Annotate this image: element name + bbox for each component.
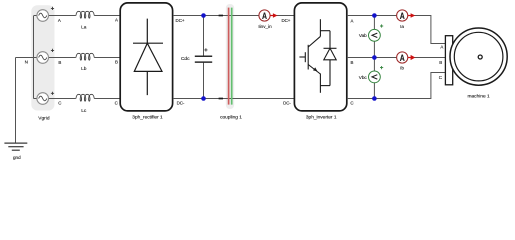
wire N bus vertical: [33, 16, 35, 99]
wire source B stub right: [48, 57, 76, 59]
svg-text:machine 1: machine 1: [468, 94, 490, 100]
wire inverter A out: [347, 15, 397, 17]
svg-text:B: B: [115, 60, 118, 65]
svg-text:A: A: [440, 45, 443, 50]
wire DC- rail: [173, 98, 295, 100]
junction dot wire A x374: [372, 13, 377, 18]
voltmeter Vbc: [369, 66, 384, 83]
rectifier U1 box: [120, 3, 172, 111]
svg-text:Iinv_in: Iinv_in: [258, 24, 272, 29]
voltmeter Vab: [369, 24, 384, 41]
inductor Lb: [76, 53, 94, 60]
inverter antiparallel diode: [324, 31, 337, 86]
svg-text:B: B: [439, 60, 442, 65]
svg-text:Ia: Ia: [400, 24, 404, 29]
svg-text:Vbc: Vbc: [359, 75, 368, 80]
junction dot DC- at Cdc: [201, 96, 206, 101]
svg-text:Vab: Vab: [359, 33, 367, 38]
rectifier diode symbol: [133, 19, 163, 96]
svg-text:C: C: [350, 101, 353, 106]
svg-text:DC-: DC-: [283, 101, 291, 106]
wire DC+ rail after ammeter: [270, 15, 295, 17]
coupling stub bottom: [219, 98, 223, 100]
IGBT emitter arrowhead: [313, 67, 318, 71]
coupling stub top: [219, 15, 223, 17]
coupling red line: [228, 8, 230, 105]
svg-text:DC+: DC+: [176, 18, 185, 23]
wire voltmeter Vbc vertical: [373, 58, 375, 99]
inductor La: [76, 11, 94, 18]
svg-text:3ph_inverter 1: 3ph_inverter 1: [306, 115, 337, 121]
wire source C stubs: [34, 98, 76, 100]
wire N horizontal: [16, 57, 38, 59]
capacitor Cdc: [195, 16, 212, 99]
svg-text:A: A: [400, 53, 405, 63]
wire A after ammeter to machine: [408, 16, 445, 44]
svg-text:Lc: Lc: [81, 108, 87, 114]
svg-text:Cdc: Cdc: [181, 56, 190, 62]
svg-text:coupling 1: coupling 1: [220, 115, 242, 121]
junction dot DC+ at Cdc: [201, 13, 206, 18]
svg-text:Vgrid: Vgrid: [38, 116, 50, 122]
svg-text:gnd: gnd: [13, 155, 21, 160]
svg-text:A: A: [262, 11, 267, 21]
svg-text:C: C: [58, 101, 61, 106]
voltage source Vgrid phase A: [37, 7, 54, 21]
voltage source Vgrid phase B: [37, 49, 54, 64]
wire DC+ rail: [173, 15, 259, 17]
inductor Lc: [76, 94, 94, 101]
machine shaft ring: [478, 55, 482, 59]
wire to ground: [15, 58, 17, 144]
svg-text:A: A: [400, 11, 405, 21]
svg-text:Ib: Ib: [400, 66, 404, 71]
svg-text:La: La: [81, 25, 87, 31]
wire La to rectifier: [94, 15, 120, 17]
source group highlight box: [31, 5, 54, 110]
machine terminal box: [445, 36, 452, 85]
machine inner circle: [454, 32, 503, 81]
ammeter Ia: [397, 10, 416, 21]
svg-text:N: N: [25, 59, 28, 64]
ground: [4, 143, 27, 150]
svg-text:DC-: DC-: [177, 101, 185, 106]
svg-text:A: A: [351, 19, 354, 24]
svg-text:A: A: [58, 18, 61, 23]
inverter IGBT symbol: [299, 19, 330, 93]
junction dot wire B x374: [372, 55, 377, 60]
wire voltmeter Vab vertical: [373, 16, 375, 58]
machine outer circle: [450, 28, 507, 85]
svg-text:C: C: [115, 101, 118, 106]
svg-text:B: B: [58, 60, 61, 65]
ammeter Ib: [397, 52, 416, 63]
wire source A stubs: [34, 15, 76, 17]
svg-text:Lb: Lb: [81, 66, 87, 72]
wire Lc to rectifier: [94, 98, 120, 100]
inverter U2 box: [294, 3, 346, 111]
svg-text:B: B: [351, 60, 354, 65]
wire inverter C out: [347, 73, 446, 99]
coupling green line: [231, 8, 233, 105]
wire inverter B out: [347, 57, 397, 59]
coupling 1 background band: [226, 4, 234, 109]
svg-text:3ph_rectifier 1: 3ph_rectifier 1: [132, 115, 163, 121]
junction dot wire C x374: [372, 96, 377, 101]
svg-text:DC+: DC+: [281, 18, 290, 23]
wire Lb to rectifier: [94, 57, 120, 59]
svg-text:A: A: [115, 18, 118, 23]
voltage source Vgrid phase C: [37, 92, 54, 105]
svg-text:C: C: [439, 75, 442, 80]
wire B after ammeter to machine: [408, 57, 445, 59]
ammeter Iinv_in: [259, 10, 278, 21]
